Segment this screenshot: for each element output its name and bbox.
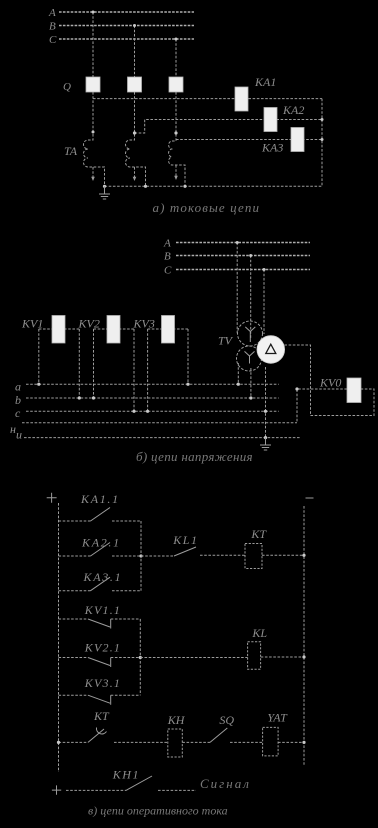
svg-text:C: C: [49, 34, 57, 46]
svg-text:б) цепи напряжения: б) цепи напряжения: [136, 449, 253, 464]
svg-text:c: c: [15, 406, 21, 420]
svg-text:B: B: [164, 251, 171, 263]
svg-text:KA2: KA2: [282, 103, 304, 117]
svg-text:в) цепи оперативного тока: в) цепи оперативного тока: [88, 804, 228, 818]
svg-text:а) токовые цепи: а) токовые цепи: [153, 200, 261, 215]
svg-text:KV3.1: KV3.1: [84, 676, 121, 690]
svg-text:KH1: KH1: [112, 768, 140, 782]
svg-text:A: A: [48, 7, 56, 19]
svg-text:KH: KH: [167, 713, 186, 727]
svg-text:Q: Q: [63, 81, 71, 93]
svg-text:A: A: [163, 238, 171, 250]
svg-text:C: C: [164, 265, 172, 277]
svg-text:KA3: KA3: [261, 141, 283, 155]
svg-text:KV1.1: KV1.1: [84, 603, 121, 617]
svg-text:SQ: SQ: [219, 713, 234, 727]
svg-text:KA1: KA1: [254, 75, 276, 89]
svg-text:KA2.1: KA2.1: [81, 536, 121, 550]
svg-text:a: a: [15, 380, 21, 394]
svg-text:KV2: KV2: [78, 317, 100, 331]
svg-text:KL: KL: [251, 626, 267, 640]
svg-text:b: b: [15, 393, 21, 407]
svg-text:и: и: [16, 428, 22, 442]
svg-text:KA1.1: KA1.1: [80, 492, 120, 506]
svg-text:KT: KT: [250, 527, 267, 541]
svg-text:KV2.1: KV2.1: [84, 641, 121, 655]
svg-text:YAT: YAT: [267, 711, 288, 725]
svg-text:Сигнал: Сигнал: [200, 776, 251, 791]
svg-text:KV1: KV1: [21, 317, 43, 331]
svg-text:KA3.1: KA3.1: [83, 570, 123, 584]
svg-text:TV: TV: [218, 334, 234, 348]
svg-text:B: B: [49, 21, 56, 33]
svg-text:KT: KT: [93, 709, 110, 723]
svg-text:KV3: KV3: [133, 317, 155, 331]
svg-text:TA: TA: [64, 144, 78, 158]
svg-text:KV0: KV0: [319, 376, 341, 390]
svg-text:KL1: KL1: [172, 533, 198, 547]
